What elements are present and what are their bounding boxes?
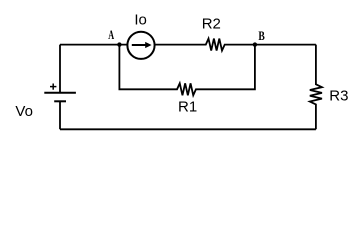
- svg-text:Io: Io: [134, 12, 147, 29]
- svg-text:R3: R3: [329, 88, 348, 105]
- svg-text:Vo: Vo: [15, 103, 33, 120]
- svg-text:A: A: [108, 29, 114, 42]
- svg-text:R1: R1: [178, 99, 197, 116]
- svg-text:B: B: [258, 30, 265, 44]
- svg-text:R2: R2: [202, 15, 221, 32]
